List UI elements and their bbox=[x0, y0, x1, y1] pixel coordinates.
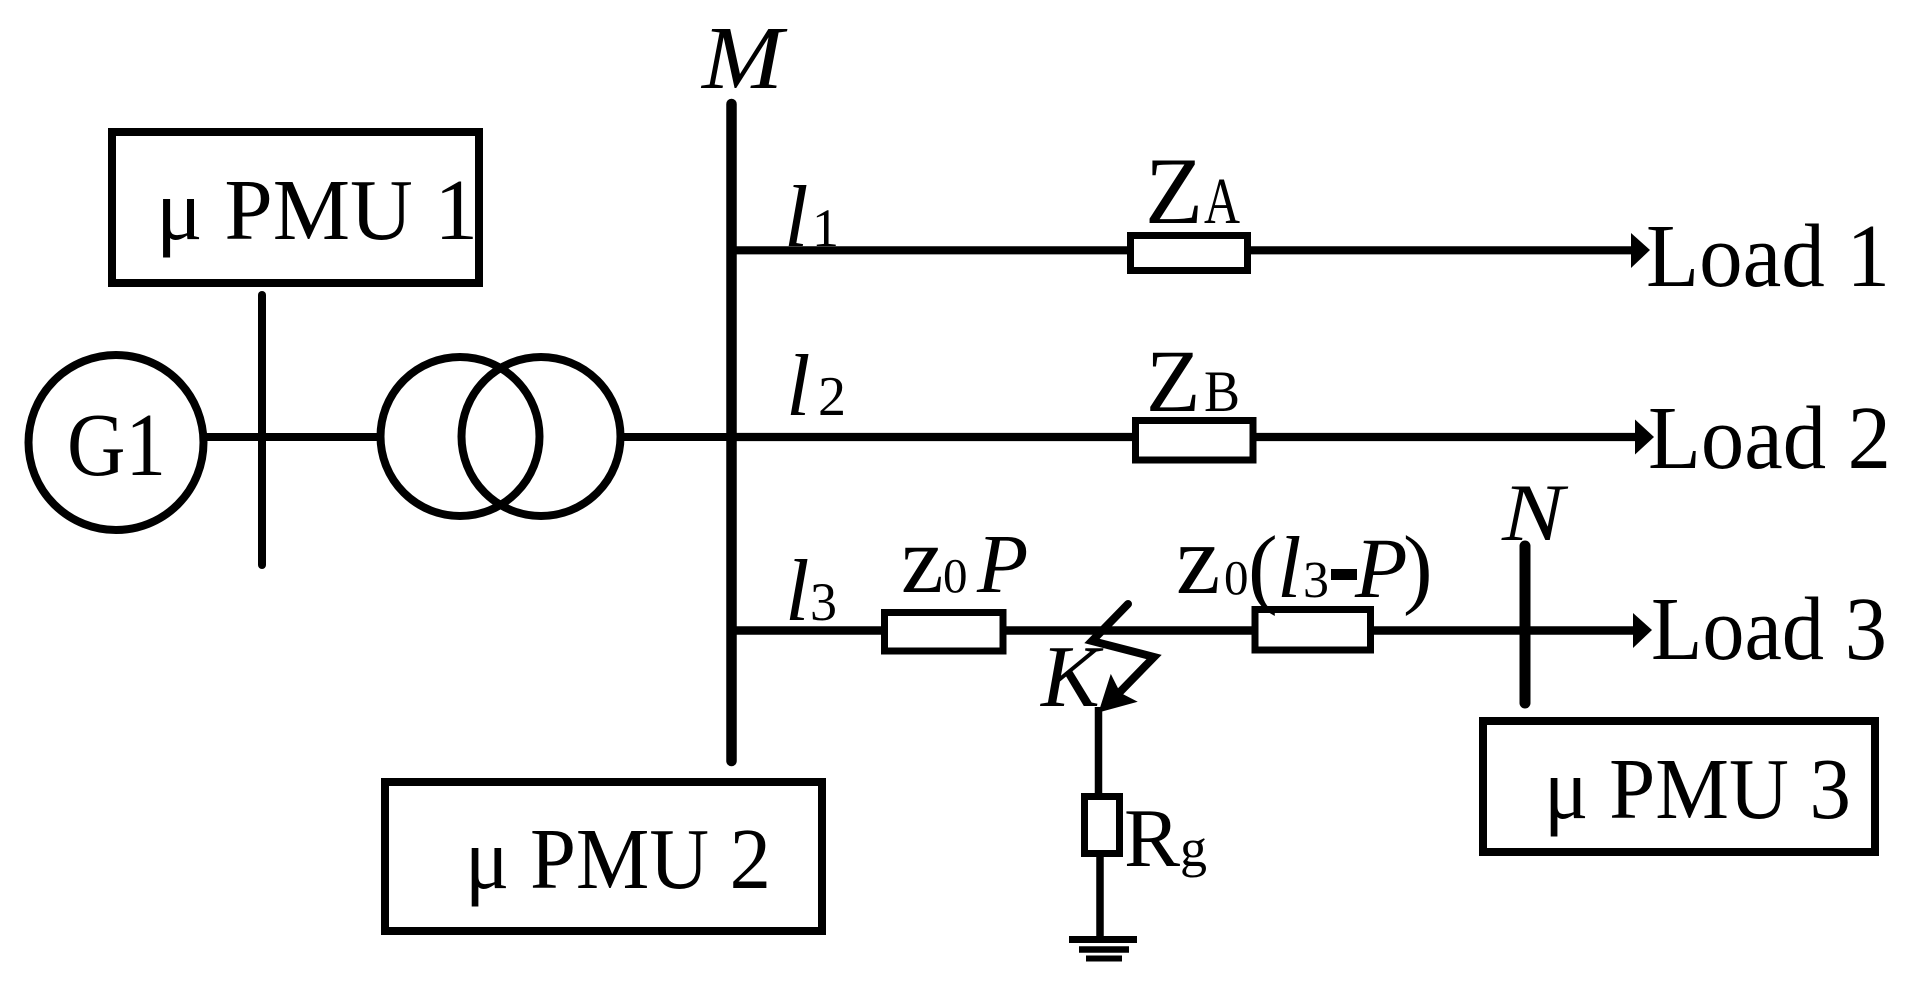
svg-text:N: N bbox=[1501, 467, 1569, 558]
svg-text:G1: G1 bbox=[67, 396, 166, 495]
svg-text:μ PMU 3: μ PMU 3 bbox=[1544, 740, 1851, 837]
svg-text:μ PMU 1: μ PMU 1 bbox=[156, 161, 478, 258]
svg-text:M: M bbox=[700, 9, 789, 108]
svg-text:Load 3: Load 3 bbox=[1651, 580, 1887, 679]
svg-text:μ PMU 2: μ PMU 2 bbox=[465, 810, 771, 907]
svg-text:Load 1: Load 1 bbox=[1646, 207, 1890, 306]
svg-text:K: K bbox=[1039, 629, 1104, 726]
svg-text:Load 2: Load 2 bbox=[1648, 389, 1891, 488]
